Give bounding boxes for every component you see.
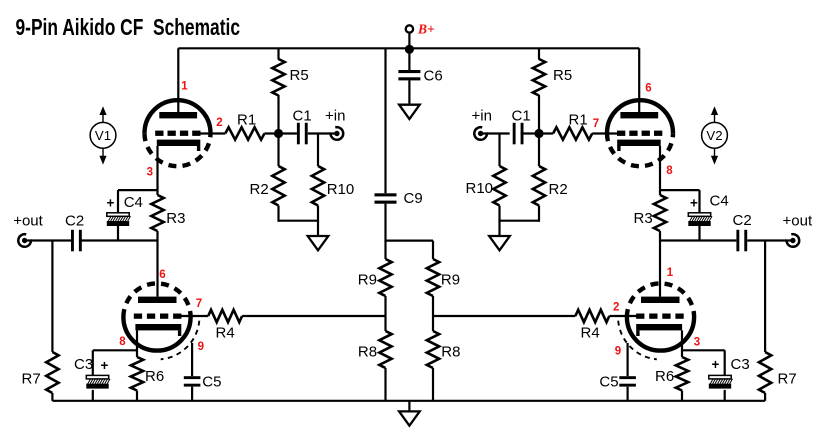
wire B+ to C6 xyxy=(408,48,410,70)
triode V1 lower plate xyxy=(138,297,177,303)
ground below R10 left xyxy=(308,236,329,250)
ground below R10 right xyxy=(489,236,510,250)
wire R7 left to rail xyxy=(51,393,53,401)
wire R8 left to bottom rail xyxy=(384,368,386,401)
wire C3 right top xyxy=(724,350,726,375)
triode V1 upper plate xyxy=(159,112,197,118)
wire R4 left to center column xyxy=(242,315,385,317)
capacitor C1 right xyxy=(513,123,524,145)
tube designator V2 xyxy=(433,48,813,401)
resistor R6 right xyxy=(676,357,688,391)
svg-text:R6: R6 xyxy=(145,368,164,385)
wire rail to R5 right xyxy=(538,48,540,59)
svg-text:+: + xyxy=(101,358,109,373)
wire tee to R9 right xyxy=(432,241,434,259)
wire C5 right to rail xyxy=(626,387,628,401)
triode V2 lower heater arc (pin 9) xyxy=(618,321,657,360)
wire +out to C2 left xyxy=(24,239,71,241)
resistor R8 right xyxy=(427,331,439,368)
svg-text:R10: R10 xyxy=(327,181,355,198)
wire to ground right xyxy=(498,221,500,236)
capacitor C2 right xyxy=(736,230,747,252)
triode V1 upper envelope solid arc xyxy=(145,100,211,133)
junction dot B+ node xyxy=(405,45,414,54)
capacitor C4 left (electrolytic) xyxy=(107,213,131,226)
resistor R8 left xyxy=(379,331,391,368)
svg-text:C3: C3 xyxy=(731,356,750,373)
svg-text:9: 9 xyxy=(615,346,621,358)
resistor R4 right xyxy=(575,310,609,322)
svg-text:1: 1 xyxy=(181,81,188,93)
wire C3 left top xyxy=(92,350,94,375)
resistor R1 right xyxy=(553,127,592,139)
svg-text:3: 3 xyxy=(147,167,153,179)
svg-text:C6: C6 xyxy=(424,67,443,84)
triode V2 lower envelope solid arc xyxy=(627,317,694,351)
wire node to R2 right xyxy=(538,134,540,167)
svg-text:6: 6 xyxy=(645,83,651,95)
resistor R2 left xyxy=(272,166,284,206)
svg-text:8: 8 xyxy=(119,336,126,348)
wire R2-R10 connector left xyxy=(279,220,319,222)
wire R6 right to rail xyxy=(681,391,683,401)
capacitor C5 left xyxy=(184,376,201,386)
wire R10 right top xyxy=(498,134,500,167)
triode V2 upper plate xyxy=(620,112,658,118)
ground bottom center xyxy=(399,411,420,425)
wire cathode tee left xyxy=(118,189,158,191)
resistor R7 left xyxy=(46,352,58,393)
wire C3 left to rail xyxy=(92,390,94,401)
junction dot node A right xyxy=(534,129,543,138)
triode V1 upper cathode xyxy=(157,140,201,151)
wire to ground left xyxy=(317,221,319,236)
wire pin 8 (cathode to R6) xyxy=(136,330,138,357)
wire +out right to C2 xyxy=(747,239,793,241)
wire top B+ rail xyxy=(178,47,639,49)
triode V1 lower cathode xyxy=(135,324,181,336)
svg-text:7: 7 xyxy=(593,118,599,130)
svg-text:9-Pin Aikido CF Schematic: 9-Pin Aikido CF Schematic xyxy=(16,14,241,40)
svg-text:1: 1 xyxy=(667,267,674,279)
wire R6 left to rail xyxy=(136,391,138,401)
wire C4 left bottom xyxy=(117,226,119,241)
wire pin 7 V2 (grid to R1) xyxy=(592,132,619,134)
resistor R10 left xyxy=(312,166,324,206)
svg-text:R7: R7 xyxy=(22,371,41,388)
wire R3 right bottom xyxy=(659,231,661,241)
svg-text:C1: C1 xyxy=(293,108,312,125)
resistor R2 right xyxy=(533,166,545,206)
resistor R6 left xyxy=(131,357,143,391)
wire pin 1 (plate to rail) xyxy=(177,48,179,115)
wire pin 9 to C5 left xyxy=(191,343,193,376)
wire C9 to tee xyxy=(384,204,386,242)
capacitor C4 right (electrolytic) xyxy=(688,213,712,226)
resistor R9 right xyxy=(427,259,439,296)
svg-text:V1: V1 xyxy=(95,128,111,143)
resistor R10 right xyxy=(493,166,505,206)
wire B+ stub xyxy=(408,33,410,49)
wire pin 8 horizontal left xyxy=(93,349,137,351)
svg-text:R4: R4 xyxy=(216,325,235,342)
wire R5 left to node xyxy=(277,95,279,134)
wire C4 right bottom xyxy=(698,226,700,241)
wire R2 left bottom xyxy=(277,206,279,222)
triode V2 upper envelope solid arc xyxy=(607,100,673,133)
svg-text:6: 6 xyxy=(159,269,165,281)
wire pin 9 to C5 right xyxy=(626,343,628,376)
svg-text:B+: B+ xyxy=(417,21,435,36)
wire pin 6 V2 (plate to rail) xyxy=(638,48,640,115)
svg-text:R7: R7 xyxy=(778,371,797,388)
svg-text:C9: C9 xyxy=(404,190,423,207)
wire +out drop to R7 left xyxy=(51,241,53,353)
junction dot node A left xyxy=(274,129,283,138)
capacitor C1 left xyxy=(297,123,308,145)
svg-text:7: 7 xyxy=(196,298,202,310)
wire pin 8 V2 (cathode down) xyxy=(659,146,661,195)
wire R10 left bottom xyxy=(317,206,319,222)
svg-text:+out: +out xyxy=(13,212,43,229)
wire C3 right to rail xyxy=(724,390,726,401)
svg-text:R2: R2 xyxy=(250,181,269,198)
triode V1 upper envelope dashed arc xyxy=(145,133,211,166)
B+ terminal xyxy=(406,25,413,32)
svg-text:+out: +out xyxy=(783,212,813,229)
ground below C6 xyxy=(399,105,420,119)
wire C1 right to +in jack xyxy=(482,132,510,134)
svg-text:C4: C4 xyxy=(710,193,729,210)
triode V1 lower grid xyxy=(134,314,182,319)
wire C1 to +in jack xyxy=(308,132,336,134)
wire rail to R5 left xyxy=(277,48,279,59)
svg-text:R2: R2 xyxy=(549,181,568,198)
triode V2 upper cathode xyxy=(617,140,661,151)
resistor R4 left xyxy=(208,310,242,322)
svg-text:C3: C3 xyxy=(74,356,93,373)
wire pin 3 (cathode down) xyxy=(156,146,158,195)
resistor R9 left xyxy=(379,259,391,296)
wire pin 3 (cathode to R6 right) xyxy=(681,330,683,357)
triode V2 lower cathode xyxy=(636,324,682,336)
capacitor C5 right xyxy=(619,376,636,386)
wire bottom ground rail xyxy=(52,400,765,402)
svg-text:8: 8 xyxy=(666,165,673,177)
wire R9 right to R8 right xyxy=(432,296,434,331)
svg-text:R10: R10 xyxy=(466,180,494,197)
triode V2 upper grid xyxy=(617,131,662,136)
svg-text:+in: +in xyxy=(325,108,345,125)
svg-text:R1: R1 xyxy=(569,111,588,128)
resistor R5 left xyxy=(272,59,284,96)
triode V1 lower envelope dashed arc xyxy=(123,283,190,317)
wire R3 junction to lower plate (pin 6) xyxy=(156,241,158,297)
wire C5 left to rail xyxy=(191,387,193,401)
capacitor C3 right (electrolytic) xyxy=(709,375,733,388)
tube designator V1 xyxy=(13,48,813,401)
wire rail to C9 xyxy=(384,48,386,193)
wire R4 right to center column xyxy=(433,315,575,317)
wire C4 left top xyxy=(117,190,119,213)
wire R2 right bottom xyxy=(538,206,540,222)
svg-text:C5: C5 xyxy=(202,373,221,390)
svg-text:C4: C4 xyxy=(124,194,143,211)
svg-text:C2: C2 xyxy=(733,212,752,229)
wire C2 left to R3 xyxy=(79,239,158,241)
triode V2 upper envelope dashed arc xyxy=(607,133,673,166)
svg-text:+: + xyxy=(712,357,720,372)
wire R3 right junction to lower plate (pin 1) xyxy=(659,241,661,297)
resistor R7 right xyxy=(759,352,771,393)
triode V2 lower envelope dashed arc xyxy=(627,283,694,317)
svg-text:C2: C2 xyxy=(65,212,84,229)
svg-text:R9: R9 xyxy=(441,271,460,288)
wire R2-R10 connector right xyxy=(500,220,540,222)
svg-text:+: + xyxy=(107,196,115,211)
svg-text:R1: R1 xyxy=(237,111,256,128)
svg-text:V2: V2 xyxy=(706,128,722,143)
svg-text:R8: R8 xyxy=(441,343,460,360)
triode V1 upper grid xyxy=(155,131,200,136)
resistor R1 left xyxy=(225,127,264,139)
wire C2 right to R3 xyxy=(660,239,736,241)
svg-text:C1: C1 xyxy=(512,108,531,125)
wire node to R2 left xyxy=(277,134,279,167)
wire R5 right to node xyxy=(538,95,540,134)
wire C4 right top xyxy=(698,190,700,213)
capacitor C3 left (electrolytic) xyxy=(86,375,110,388)
resistor R3 right xyxy=(654,195,666,231)
wire pin 2 (grid to R4 right) xyxy=(609,315,638,317)
wire R10 left top xyxy=(317,134,319,167)
triode V2 lower plate xyxy=(641,297,680,303)
wire tee xyxy=(386,240,434,242)
svg-text:R4: R4 xyxy=(581,325,600,342)
capacitor C6 xyxy=(398,70,420,80)
wire R9 left to R8 left xyxy=(384,296,386,331)
wire R1 right to node xyxy=(521,132,554,134)
svg-text:R8: R8 xyxy=(358,343,377,360)
output jack +out right xyxy=(787,234,800,247)
input jack +in left xyxy=(331,127,344,140)
svg-text:R6: R6 xyxy=(655,368,674,385)
wire bottom ground stub xyxy=(408,401,410,412)
wire pin 3 horizontal right xyxy=(682,349,725,351)
svg-text:+in: +in xyxy=(472,108,492,125)
wire R1 to node xyxy=(264,132,297,134)
wire +out right drop to R7 xyxy=(764,241,766,353)
svg-text:R5: R5 xyxy=(553,67,572,84)
svg-text:R5: R5 xyxy=(290,67,309,84)
triode V1 lower heater arc (pin 9) xyxy=(161,321,200,360)
wire cathode tee right xyxy=(660,189,700,191)
triode V1 lower envelope solid arc xyxy=(123,317,190,351)
svg-text:9: 9 xyxy=(198,341,204,353)
capacitor C2 left xyxy=(71,230,82,252)
svg-text:+: + xyxy=(690,196,698,211)
capacitor C9 xyxy=(375,193,397,203)
svg-text:3: 3 xyxy=(694,337,700,349)
wire R3 left bottom xyxy=(156,231,158,241)
wire pin 7 (grid to R4) xyxy=(179,315,208,317)
svg-text:2: 2 xyxy=(613,302,619,314)
resistor R3 left xyxy=(151,195,163,231)
svg-text:R3: R3 xyxy=(166,210,185,227)
svg-text:C5: C5 xyxy=(599,373,618,390)
output jack +out left xyxy=(18,234,31,247)
wire R10 right bottom xyxy=(498,206,500,222)
triode V2 lower grid xyxy=(636,314,684,319)
wire C6 to ground xyxy=(408,80,410,104)
wire tee to R9 left xyxy=(384,241,386,259)
wire R7 right to rail xyxy=(764,393,766,401)
wire R8 right to bottom rail xyxy=(432,368,434,401)
resistor R5 right xyxy=(533,59,545,96)
wire pin 2 (grid to R1) xyxy=(199,132,226,134)
svg-text:R3: R3 xyxy=(634,210,653,227)
svg-text:R9: R9 xyxy=(358,271,377,288)
input jack +in right xyxy=(474,127,487,140)
svg-text:2: 2 xyxy=(216,117,222,129)
